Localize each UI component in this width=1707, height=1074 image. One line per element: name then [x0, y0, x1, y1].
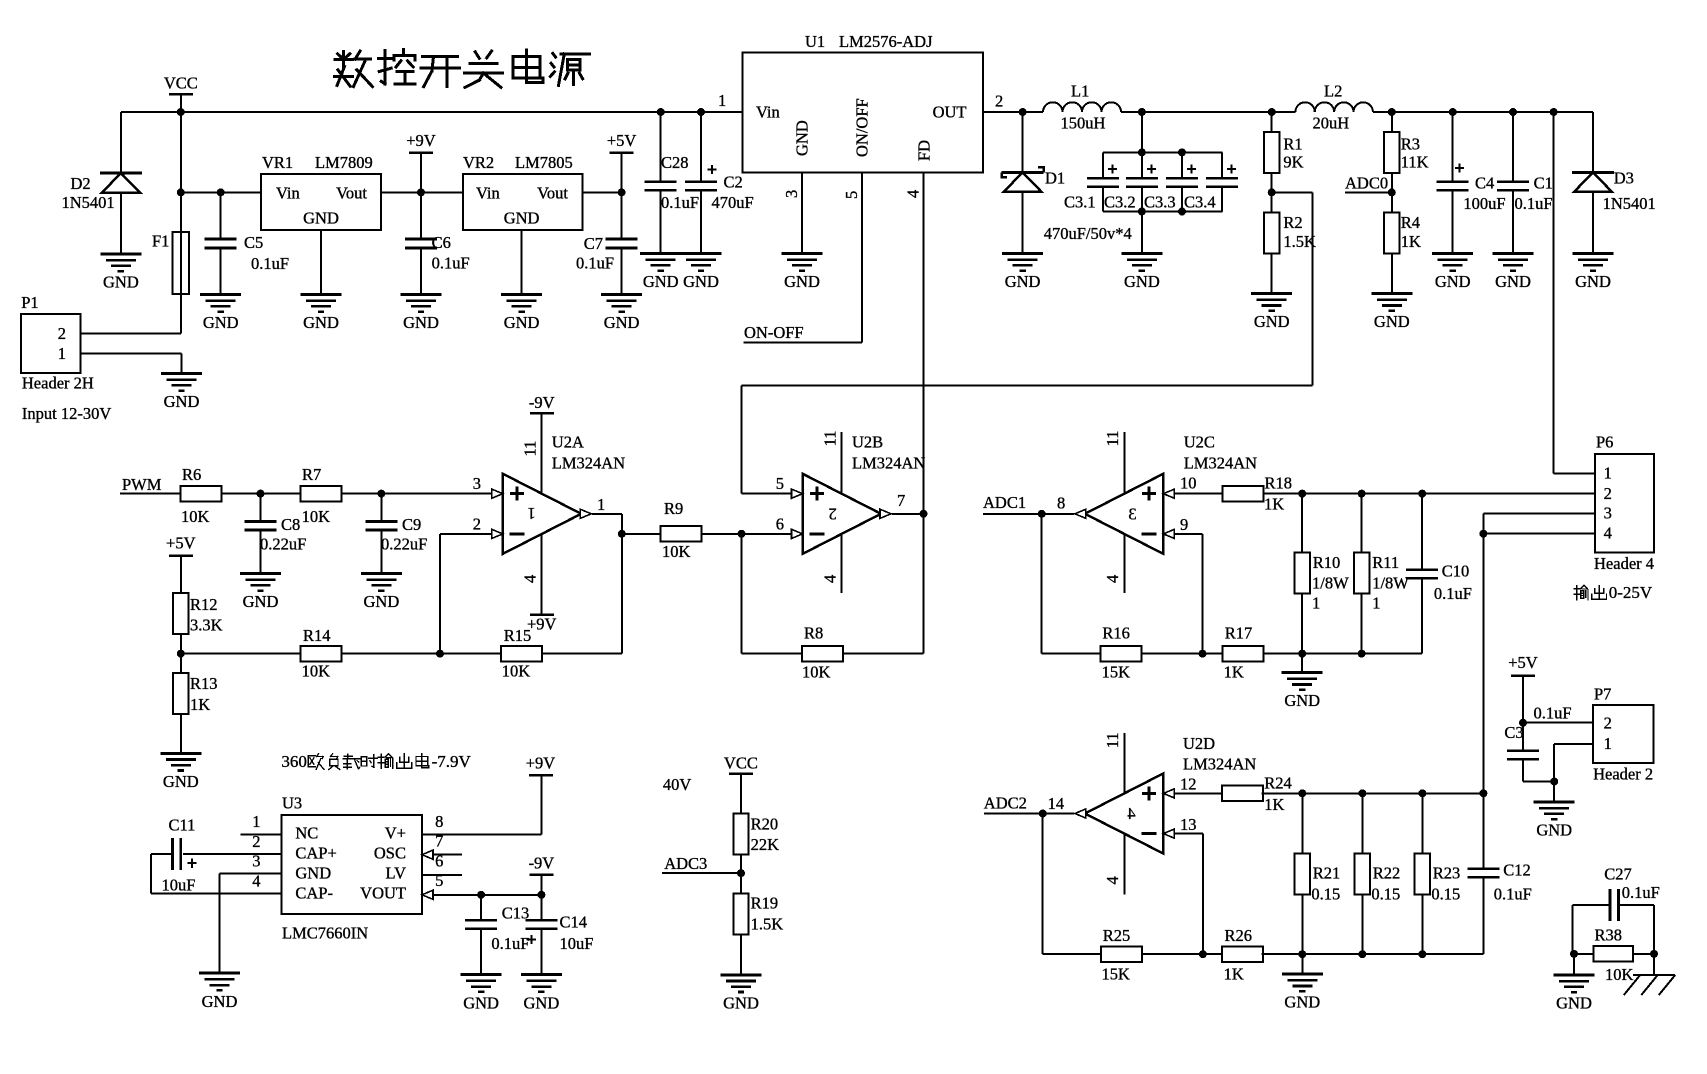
svg-text:GND: GND: [1124, 272, 1160, 291]
svg-text:P6: P6: [1596, 433, 1613, 452]
svg-text:2: 2: [473, 515, 481, 534]
svg-text:ON-OFF: ON-OFF: [744, 323, 804, 342]
svg-text:LM7805: LM7805: [515, 153, 573, 172]
svg-text:GND: GND: [1536, 821, 1572, 840]
svg-text:R16: R16: [1102, 623, 1130, 642]
svg-text:GND: GND: [203, 313, 239, 332]
svg-text:2: 2: [828, 505, 836, 524]
svg-text:NC: NC: [295, 824, 318, 843]
svg-text:10K: 10K: [181, 507, 210, 526]
svg-text:GND: GND: [683, 272, 719, 291]
svg-text:10K: 10K: [802, 662, 831, 681]
svg-text:C14: C14: [560, 913, 588, 932]
svg-text:1: 1: [1372, 594, 1380, 613]
svg-text:1.5K: 1.5K: [1283, 232, 1316, 251]
svg-text:+9V: +9V: [406, 131, 436, 150]
svg-text:F1: F1: [152, 232, 169, 251]
svg-text:L1: L1: [1071, 82, 1089, 101]
svg-text:4: 4: [1103, 575, 1122, 583]
svg-text:GND: GND: [1284, 691, 1320, 710]
svg-text:150uH: 150uH: [1061, 114, 1106, 133]
svg-text:4: 4: [1127, 804, 1135, 823]
svg-text:10K: 10K: [662, 542, 691, 561]
svg-text:U2D: U2D: [1183, 734, 1215, 753]
svg-text:10uF: 10uF: [162, 875, 196, 894]
svg-text:GND: GND: [1005, 272, 1041, 291]
svg-text:1: 1: [527, 504, 535, 523]
svg-text:5: 5: [776, 474, 784, 493]
svg-text:VR2: VR2: [463, 153, 494, 172]
svg-text:1: 1: [597, 495, 605, 514]
svg-text:2: 2: [1604, 484, 1612, 503]
svg-text:LM2576-ADJ: LM2576-ADJ: [839, 32, 933, 51]
svg-text:C28: C28: [661, 153, 689, 172]
svg-text:C8: C8: [281, 515, 300, 534]
svg-text:0.1uF: 0.1uF: [251, 254, 289, 273]
svg-text:1N5401: 1N5401: [1603, 194, 1656, 213]
svg-text:C9: C9: [402, 515, 421, 534]
svg-text:VOUT: VOUT: [360, 883, 406, 902]
svg-text:0.1uF: 0.1uF: [1515, 194, 1553, 213]
svg-text:D3: D3: [1614, 169, 1634, 188]
svg-text:R22: R22: [1373, 864, 1401, 883]
svg-text:11: 11: [521, 441, 540, 457]
svg-text:+9V: +9V: [526, 753, 556, 772]
svg-text:14: 14: [1048, 794, 1065, 813]
svg-text:-9V: -9V: [529, 853, 555, 872]
svg-text:15K: 15K: [1102, 965, 1131, 984]
svg-text:R4: R4: [1401, 213, 1420, 232]
svg-text:LM7809: LM7809: [315, 153, 373, 172]
svg-text:1.5K: 1.5K: [751, 915, 784, 934]
svg-text:R23: R23: [1433, 864, 1461, 883]
svg-text:C2: C2: [724, 173, 743, 192]
svg-text:12: 12: [1180, 774, 1197, 793]
svg-text:8: 8: [435, 812, 443, 831]
svg-text:U1: U1: [805, 32, 825, 51]
svg-text:7: 7: [897, 491, 905, 510]
svg-text:6: 6: [776, 515, 784, 534]
svg-text:VR1: VR1: [262, 153, 293, 172]
svg-text:C5: C5: [244, 233, 263, 252]
svg-text:C7: C7: [584, 234, 603, 253]
svg-text:R20: R20: [751, 815, 779, 834]
svg-text:PWM: PWM: [122, 475, 162, 494]
svg-text:1N5401: 1N5401: [62, 193, 115, 212]
svg-text:+5V: +5V: [1508, 653, 1538, 672]
svg-text:2: 2: [58, 324, 66, 343]
svg-text:FD: FD: [915, 140, 934, 161]
svg-text:GND: GND: [524, 993, 560, 1012]
svg-text:0.15: 0.15: [1431, 884, 1460, 903]
svg-text:10uF: 10uF: [560, 934, 594, 953]
svg-text:GND: GND: [1575, 272, 1611, 291]
svg-text:11: 11: [1103, 431, 1122, 447]
svg-text:GND: GND: [163, 772, 199, 791]
svg-text:5: 5: [842, 191, 861, 199]
svg-text:GND: GND: [504, 313, 540, 332]
svg-text:GND: GND: [303, 209, 339, 228]
svg-text:11: 11: [821, 431, 840, 447]
svg-text:LMC7660IN: LMC7660IN: [282, 924, 368, 943]
svg-text:LM324AN: LM324AN: [1184, 453, 1257, 472]
svg-text:U3: U3: [282, 793, 302, 812]
svg-text:360: 360: [281, 752, 307, 771]
svg-text:11K: 11K: [1401, 153, 1429, 172]
svg-text:10K: 10K: [302, 507, 331, 526]
svg-text:C13: C13: [502, 903, 530, 922]
svg-text:0.15: 0.15: [1371, 884, 1400, 903]
svg-text:Header 4: Header 4: [1594, 554, 1654, 573]
svg-text:GND: GND: [723, 993, 759, 1012]
svg-text:GND: GND: [403, 313, 439, 332]
svg-text:4: 4: [904, 190, 923, 198]
svg-text:R18: R18: [1265, 474, 1293, 493]
svg-text:CAP-: CAP-: [295, 883, 333, 902]
svg-text:ON/OFF: ON/OFF: [853, 98, 872, 157]
svg-text:R15: R15: [504, 626, 532, 645]
svg-text:1K: 1K: [1224, 965, 1244, 984]
svg-text:P7: P7: [1594, 685, 1611, 704]
svg-text:OUT: OUT: [933, 103, 967, 122]
svg-text:C3: C3: [1504, 723, 1523, 742]
svg-text:R26: R26: [1225, 926, 1253, 945]
svg-text:1: 1: [58, 344, 66, 363]
svg-text:4: 4: [521, 575, 540, 583]
svg-text:R2: R2: [1283, 213, 1302, 232]
svg-text:1/8W: 1/8W: [1312, 573, 1349, 592]
svg-text:Vout: Vout: [537, 184, 568, 203]
svg-text:1: 1: [718, 91, 726, 110]
svg-text:GND: GND: [164, 392, 200, 411]
svg-text:C27: C27: [1604, 864, 1632, 883]
svg-text:L2: L2: [1324, 82, 1342, 101]
svg-text:1: 1: [252, 812, 260, 831]
svg-text:R7: R7: [302, 465, 321, 484]
svg-text:ADC0: ADC0: [1345, 174, 1388, 193]
svg-text:11: 11: [1103, 732, 1122, 748]
svg-text:+5V: +5V: [607, 131, 637, 150]
svg-text:3: 3: [1128, 505, 1136, 524]
svg-text:Vin: Vin: [756, 103, 780, 122]
svg-text:GND: GND: [793, 120, 812, 156]
svg-text:LM324AN: LM324AN: [1183, 755, 1256, 774]
svg-text:3: 3: [782, 190, 801, 198]
svg-text:0-25V: 0-25V: [1609, 583, 1653, 602]
svg-text:R21: R21: [1313, 864, 1341, 883]
svg-text:R11: R11: [1372, 553, 1399, 572]
svg-text:R25: R25: [1103, 926, 1131, 945]
svg-text:GND: GND: [295, 863, 331, 882]
svg-text:GND: GND: [463, 993, 499, 1012]
svg-text:10K: 10K: [1605, 965, 1634, 984]
svg-text:D2: D2: [71, 174, 91, 193]
svg-text:2: 2: [995, 92, 1003, 111]
svg-text:GND: GND: [1435, 272, 1471, 291]
svg-text:40V: 40V: [663, 775, 692, 794]
svg-text:P1: P1: [21, 293, 38, 312]
svg-text:GND: GND: [1374, 312, 1410, 331]
svg-text:C3.3: C3.3: [1144, 193, 1176, 212]
svg-text:1: 1: [1312, 594, 1320, 613]
svg-text:4: 4: [1103, 876, 1122, 884]
svg-text:GND: GND: [303, 313, 339, 332]
svg-text:GND: GND: [1254, 312, 1290, 331]
svg-text:R3: R3: [1401, 134, 1420, 153]
svg-text:C3.4: C3.4: [1184, 193, 1216, 212]
svg-text:9K: 9K: [1283, 153, 1303, 172]
svg-text:Vin: Vin: [276, 184, 300, 203]
svg-text:ADC3: ADC3: [664, 854, 707, 873]
svg-text:1K: 1K: [1264, 795, 1284, 814]
svg-text:3: 3: [473, 474, 481, 493]
svg-text:R14: R14: [303, 626, 331, 645]
svg-text:R8: R8: [804, 623, 823, 642]
svg-text:C1: C1: [1534, 174, 1553, 193]
svg-text:0.1uF: 0.1uF: [1534, 704, 1572, 723]
svg-text:0.1uF: 0.1uF: [1622, 883, 1660, 902]
svg-text:0.1uF: 0.1uF: [1434, 584, 1472, 603]
svg-text:3: 3: [1604, 504, 1612, 523]
svg-text:8: 8: [1057, 493, 1065, 512]
svg-text:1K: 1K: [1401, 232, 1421, 251]
svg-text:1K: 1K: [190, 695, 210, 714]
svg-text:R17: R17: [1225, 623, 1253, 642]
svg-text:13: 13: [1180, 815, 1197, 834]
svg-text:C12: C12: [1503, 860, 1531, 879]
svg-text:10K: 10K: [302, 661, 331, 680]
svg-text:+9V: +9V: [527, 615, 557, 634]
svg-text:ADC2: ADC2: [984, 794, 1027, 813]
svg-text:LM324AN: LM324AN: [552, 453, 625, 472]
svg-text:100uF: 100uF: [1463, 194, 1505, 213]
svg-text:20uH: 20uH: [1313, 114, 1350, 133]
svg-text:0.22uF: 0.22uF: [381, 535, 427, 554]
svg-text:C4: C4: [1475, 174, 1494, 193]
svg-text:R38: R38: [1595, 926, 1623, 945]
svg-text:R6: R6: [182, 465, 201, 484]
svg-text:4: 4: [821, 575, 840, 583]
svg-text:GND: GND: [1284, 993, 1320, 1012]
svg-text:GND: GND: [1495, 272, 1531, 291]
svg-text:R24: R24: [1264, 774, 1292, 793]
svg-text:1: 1: [1604, 464, 1612, 483]
svg-text:Vin: Vin: [476, 184, 500, 203]
svg-text:0.22uF: 0.22uF: [260, 535, 306, 554]
svg-text:U2B: U2B: [852, 433, 883, 452]
svg-text:ADC1: ADC1: [983, 493, 1026, 512]
svg-text:Input 12-30V: Input 12-30V: [22, 404, 111, 423]
svg-text:470uF/50v*4: 470uF/50v*4: [1044, 224, 1132, 243]
svg-text:C10: C10: [1442, 562, 1470, 581]
svg-text:9: 9: [1180, 515, 1188, 534]
svg-text:0.1uF: 0.1uF: [491, 934, 529, 953]
svg-text:C3.2: C3.2: [1104, 193, 1136, 212]
svg-text:15K: 15K: [1102, 662, 1131, 681]
svg-text:3.3K: 3.3K: [190, 616, 223, 635]
svg-text:R19: R19: [751, 893, 779, 912]
svg-text:GND: GND: [103, 273, 139, 292]
svg-text:470uF: 470uF: [712, 193, 754, 212]
svg-text:GND: GND: [364, 592, 400, 611]
svg-text:GND: GND: [784, 272, 820, 291]
svg-text:C6: C6: [432, 233, 451, 252]
svg-text:1K: 1K: [1224, 662, 1244, 681]
svg-text:CAP+: CAP+: [295, 844, 336, 863]
svg-text:LM324AN: LM324AN: [852, 453, 925, 472]
svg-text:VCC: VCC: [724, 753, 758, 772]
svg-text:GND: GND: [604, 313, 640, 332]
svg-text:R9: R9: [664, 499, 683, 518]
svg-text:GND: GND: [1556, 994, 1592, 1013]
svg-text:0.1uF: 0.1uF: [576, 254, 614, 273]
svg-text:D1: D1: [1045, 169, 1065, 188]
svg-text:10K: 10K: [502, 661, 531, 680]
svg-text:C11: C11: [169, 816, 196, 835]
svg-text:4: 4: [1604, 524, 1612, 543]
svg-text:V+: V+: [385, 824, 406, 843]
svg-text:VCC: VCC: [164, 74, 198, 93]
svg-text:R10: R10: [1313, 553, 1341, 572]
svg-text:GND: GND: [243, 592, 279, 611]
svg-text:+5V: +5V: [166, 533, 196, 552]
svg-text:R13: R13: [190, 674, 218, 693]
svg-text:LV: LV: [386, 863, 407, 882]
svg-text:Header 2H: Header 2H: [22, 374, 94, 393]
svg-text:22K: 22K: [751, 835, 780, 854]
svg-text:C3.1: C3.1: [1064, 193, 1096, 212]
svg-text:2: 2: [1604, 714, 1612, 733]
svg-text:U2C: U2C: [1184, 433, 1215, 452]
svg-text:0.1uF: 0.1uF: [432, 254, 470, 273]
svg-text:GND: GND: [202, 992, 238, 1011]
svg-text:-7.9V: -7.9V: [432, 752, 472, 771]
svg-text:R1: R1: [1283, 134, 1302, 153]
svg-text:10: 10: [1180, 474, 1197, 493]
svg-text:1K: 1K: [1264, 494, 1284, 513]
svg-text:GND: GND: [643, 272, 679, 291]
svg-text:0.1uF: 0.1uF: [661, 193, 699, 212]
svg-text:GND: GND: [504, 209, 540, 228]
svg-text:0.15: 0.15: [1311, 884, 1340, 903]
svg-text:0.1uF: 0.1uF: [1494, 884, 1532, 903]
svg-text:1/8W: 1/8W: [1372, 573, 1409, 592]
svg-text:OSC: OSC: [374, 844, 406, 863]
svg-text:-9V: -9V: [529, 393, 555, 412]
svg-text:R12: R12: [190, 595, 218, 614]
svg-text:Vout: Vout: [336, 184, 367, 203]
svg-text:U2A: U2A: [552, 433, 584, 452]
svg-text:1: 1: [1604, 734, 1612, 753]
svg-text:Header 2: Header 2: [1593, 764, 1653, 783]
